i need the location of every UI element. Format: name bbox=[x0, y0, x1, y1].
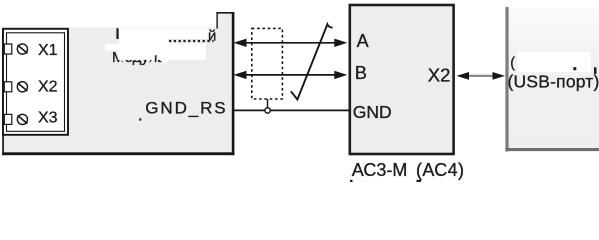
svg-text:X2: X2 bbox=[428, 64, 451, 85]
svg-text:A: A bbox=[357, 31, 369, 51]
svg-text:АС3-М: АС3-М bbox=[352, 160, 408, 180]
svg-text:X3: X3 bbox=[38, 110, 58, 127]
svg-text:(: ( bbox=[510, 56, 515, 72]
svg-text:X1: X1 bbox=[38, 42, 58, 59]
svg-text:X2: X2 bbox=[38, 79, 58, 96]
svg-text:B: B bbox=[355, 63, 367, 83]
svg-text:(USB-порт): (USB-порт) bbox=[508, 72, 599, 92]
svg-text:GND: GND bbox=[353, 102, 392, 122]
svg-text:(АС4): (АС4) bbox=[416, 160, 464, 180]
svg-text:GND_RS: GND_RS bbox=[145, 99, 227, 118]
svg-text:й: й bbox=[208, 27, 216, 44]
